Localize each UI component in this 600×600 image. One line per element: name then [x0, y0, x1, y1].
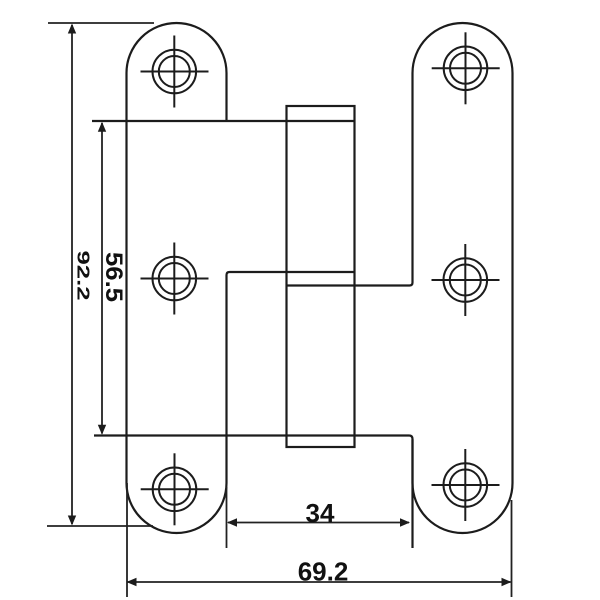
- svg-text:92.2: 92.2: [73, 251, 93, 301]
- svg-text:56.5: 56.5: [100, 252, 126, 302]
- svg-text:69.2: 69.2: [298, 557, 349, 587]
- svg-text:34: 34: [306, 498, 335, 528]
